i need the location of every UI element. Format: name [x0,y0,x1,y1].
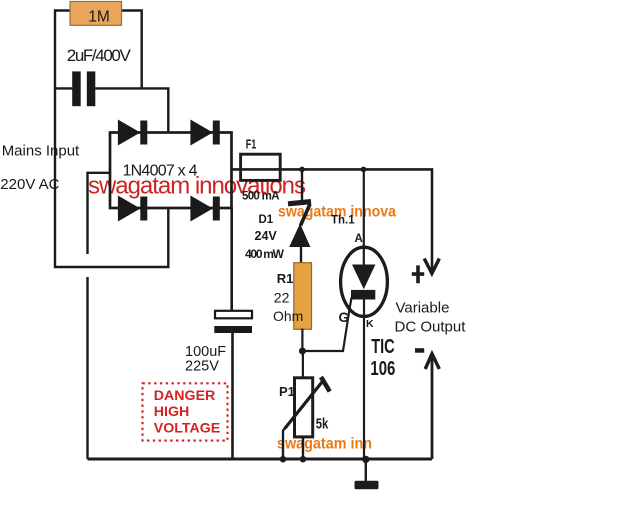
svg-text:22: 22 [274,290,290,306]
filter capacitor 100uF plates [214,311,252,333]
wire left mains line A vertical and AC feed to bridge bottom [55,9,168,267]
wire bottom negative rail [88,458,433,461]
svg-text:F1: F1 [246,136,256,151]
wire line B negative DC down-left side with crossover gap [86,172,88,459]
junction node above Th1 [361,167,367,173]
plus sign [412,265,424,283]
wire capacitor horizontal [55,88,168,133]
svg-text:225V: 225V [185,359,219,375]
svg-text:Mains Input: Mains Input [2,142,80,159]
arrowhead minus output pointing up [425,354,439,369]
wire minus output down to rail [431,355,434,460]
junction node above D1 [299,167,305,173]
svg-text:K: K [366,318,374,330]
wire bridge left edge to line B [88,172,111,174]
junction node P1 bottom on rail [300,456,307,463]
diode D-bottom-right [190,196,219,222]
potentiometer wiper arrow [283,377,330,459]
svg-text:Th.1: Th.1 [331,214,355,226]
wire R1 bottom to gate node [301,329,303,352]
junction node P1 wiper on rail [280,456,287,463]
wire top loop of 1M resistor [55,11,142,89]
zener diode D1 [288,168,311,264]
capacitor C1 plates [72,71,95,106]
arrowhead plus output pointing down [424,259,439,274]
wire filter capacitor bottom to rail [231,333,234,459]
fuse F1 body [241,154,281,180]
svg-text:Variable: Variable [396,300,450,317]
svg-text:D1: D1 [259,214,274,226]
svg-text:400 mW: 400 mW [245,247,285,261]
junction node gate [299,348,306,355]
svg-text:1M: 1M [88,8,110,25]
svg-text:24V: 24V [255,229,278,243]
svg-text:DANGER: DANGER [154,388,215,404]
svg-text:106: 106 [370,358,395,380]
diode D-top-left [118,120,147,146]
svg-text:DC Output: DC Output [395,318,467,335]
diode D-bottom-left [118,196,147,222]
thyristor Th1 TIC106 [341,247,388,316]
svg-text:100uF: 100uF [185,344,226,360]
wire anode line into thyristor [363,168,365,265]
svg-text:R1: R1 [277,271,294,286]
svg-text:220V AC: 220V AC [0,176,59,193]
svg-text:5k: 5k [316,416,329,433]
resistor 1M [70,2,122,26]
svg-text:1N4007 x 4: 1N4007 x 4 [123,162,198,179]
wire cathode line down to rail [363,299,365,459]
svg-text:P1: P1 [279,384,295,399]
potentiometer P1 body [295,351,313,459]
svg-text:HIGH: HIGH [154,404,189,420]
svg-text:VOLTAGE: VOLTAGE [154,420,220,436]
wire gate of thyristor [302,298,351,352]
svg-text:Ohm: Ohm [273,308,303,324]
svg-text:500 mA: 500 mA [242,191,280,203]
ground symbol [355,459,379,489]
diode D-top-right [190,120,219,146]
svg-text:2uF/400V: 2uF/400V [67,46,132,65]
svg-text:TIC: TIC [371,336,395,358]
bridge rectifier rectangle [110,133,232,209]
danger warning box [143,383,228,440]
junction node cathode on rail [362,456,369,463]
wire bridge right edge down to filter capacitor [230,207,233,311]
svg-text:A: A [355,233,363,245]
minus sign [415,348,424,353]
wire positive rail through fuse to output corner [231,169,433,271]
svg-text:swagatam inn: swagatam inn [277,435,372,452]
svg-text:G: G [339,310,350,325]
resistor R1 [294,263,312,330]
